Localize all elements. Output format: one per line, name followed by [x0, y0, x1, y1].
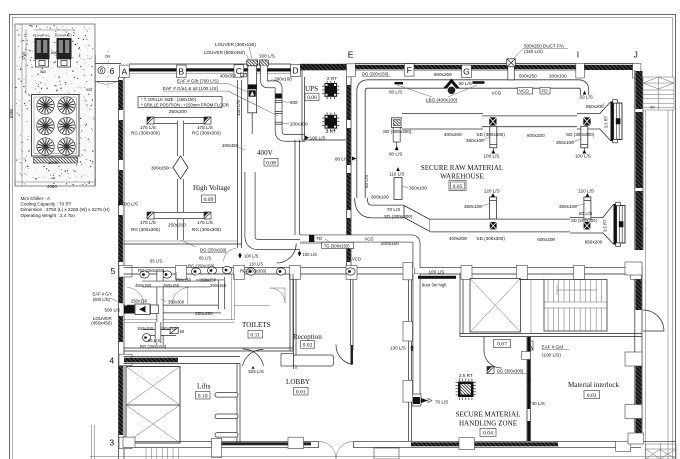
chiller fans — [37, 97, 54, 114]
svg-text:* GRILLE POSITION : +150mm F: * GRILLE POSITION : +150mm FROM FLOOR — [141, 102, 229, 107]
bottom wall — [124, 440, 677, 442]
svg-text:door 3m high: door 3m high — [422, 283, 447, 288]
svg-text:150x150: 150x150 — [200, 278, 217, 283]
stair block lift — [470, 279, 521, 333]
svg-text:0.04: 0.04 — [483, 431, 493, 437]
svg-text:80 L/S: 80 L/S — [389, 151, 402, 156]
SD diffuser head left — [392, 118, 403, 128]
svg-text:250x200: 250x200 — [169, 109, 187, 114]
svg-text:2 RT: 2 RT — [327, 76, 337, 81]
east wall — [634, 70, 636, 250]
svg-text:RG (300x300): RG (300x300) — [240, 269, 267, 274]
stair south wall — [460, 333, 642, 335]
louver boxes on wall — [247, 60, 258, 66]
svg-text:3.5 RT: 3.5 RT — [603, 219, 608, 232]
600x200 duct — [402, 113, 483, 129]
svg-text:175 L/S: 175 L/S — [197, 220, 213, 225]
yard inner line — [21, 24, 23, 186]
reception desk — [281, 354, 294, 366]
svg-text:EAF # G/a1 & a2 (100 L/S): EAF # G/a1 & a2 (100 L/S) — [163, 86, 218, 91]
duct F/A drop at I — [507, 59, 516, 67]
svg-text:PCHWP-A/1: PCHWP-A/1 — [33, 34, 50, 38]
svg-text:110 L/S: 110 L/S — [389, 172, 405, 177]
note box — [138, 97, 222, 108]
svg-text:80 L/S: 80 L/S — [579, 211, 592, 216]
top wall I-J — [584, 63, 633, 65]
door arc at 6 — [97, 82, 116, 84]
svg-text:LOUVER (600x450): LOUVER (600x450) — [204, 50, 245, 55]
svg-text:SD (300x300): SD (300x300) — [566, 132, 595, 137]
lower duct — [361, 198, 404, 212]
svg-text:4: 4 — [109, 356, 114, 366]
corridor duct — [300, 239, 417, 269]
svg-text:600: 600 — [290, 100, 298, 105]
handling west wall — [408, 280, 410, 442]
svg-text:FD: FD — [542, 89, 549, 94]
svg-text:B: B — [178, 66, 184, 76]
chiller box — [32, 95, 80, 157]
grid bubble A — [120, 65, 130, 77]
svg-text:I: I — [577, 50, 579, 60]
svg-text:DG (300x300): DG (300x300) — [497, 369, 524, 374]
svg-text:250x150: 250x150 — [163, 283, 180, 288]
svg-text:(100 L/S): (100 L/S) — [542, 353, 561, 358]
svg-text:FD: FD — [317, 236, 323, 241]
2 RT unit — [322, 113, 339, 134]
SD diffusers on duct — [489, 117, 496, 125]
riser duct to louver — [413, 274, 421, 397]
svg-text:100 L/S: 100 L/S — [244, 254, 259, 259]
svg-text:5: 5 — [111, 266, 116, 276]
lifts east wall — [236, 364, 238, 444]
svg-text:2 RT: 2 RT — [326, 129, 336, 134]
svg-text:900: 900 — [40, 70, 46, 74]
grid bubble C — [234, 65, 244, 77]
svg-text:Reception: Reception — [293, 333, 322, 341]
lower toilet cluster — [143, 329, 176, 335]
svg-text:EAF # G/b (700 L/S): EAF # G/b (700 L/S) — [177, 79, 219, 84]
grid bubble F — [404, 64, 414, 76]
top wall E-I — [355, 63, 576, 65]
svg-text:250x200: 250x200 — [168, 223, 186, 228]
svg-text:8390: 8390 — [9, 108, 14, 118]
HV south wall — [124, 243, 242, 245]
door bottom center — [318, 440, 354, 448]
svg-text:0.01: 0.01 — [296, 389, 306, 395]
svg-text:TG (300x150): TG (300x150) — [324, 243, 350, 248]
corridor wall — [124, 266, 642, 268]
svg-text:400x200: 400x200 — [449, 236, 467, 241]
svg-text:High Voltage: High Voltage — [193, 184, 230, 192]
lift doors — [215, 393, 238, 398]
stair west wall — [459, 274, 461, 337]
svg-text:175 L/S: 175 L/S — [197, 125, 213, 130]
svg-text:SECURE MATERIAL: SECURE MATERIAL — [456, 411, 521, 419]
svg-text:3745: 3745 — [22, 52, 26, 60]
grid bubble B — [177, 65, 187, 77]
svg-text:40 L/S: 40 L/S — [532, 401, 545, 406]
svg-text:SD (300x300): SD (300x300) — [477, 132, 506, 137]
svg-text:0.02: 0.02 — [303, 343, 313, 349]
ceiling fans toilets — [140, 271, 149, 278]
svg-text:2.5 RT: 2.5 RT — [459, 373, 473, 378]
svg-text:A: A — [122, 66, 128, 76]
svg-text:PCHWP-A/2: PCHWP-A/2 — [55, 34, 72, 38]
toilets partition vert — [231, 274, 233, 320]
svg-text:Lifts: Lifts — [197, 383, 211, 391]
svg-text:(440 L/S): (440 L/S) — [524, 49, 543, 54]
grid bubble 6 — [98, 66, 115, 76]
pump PCHWP-A/1 — [35, 38, 50, 67]
svg-text:600x200: 600x200 — [527, 133, 545, 138]
svg-text:500x250: 500x250 — [519, 74, 537, 79]
svg-text:SD (300x300): SD (300x300) — [477, 236, 506, 241]
110 L/S drop — [394, 178, 402, 200]
grid bubble D — [291, 64, 301, 76]
toilet doors — [127, 288, 144, 305]
svg-text:65 L/S: 65 L/S — [148, 338, 160, 343]
svg-text:150x150: 150x150 — [137, 326, 154, 331]
svg-text:Cooling Capacity : 70 RT: Cooling Capacity : 70 RT — [21, 202, 72, 207]
svg-text:130 L/S: 130 L/S — [390, 346, 406, 351]
svg-text:RG (150x150): RG (150x150) — [138, 268, 165, 273]
toilets partition horiz — [124, 319, 235, 321]
warehouse west wall — [346, 77, 348, 267]
dim lines — [15, 181, 95, 183]
west wall — [118, 77, 120, 459]
svg-text:(450x450): (450x450) — [91, 321, 112, 326]
lbg grilles — [395, 82, 404, 84]
svg-text:50 L/S: 50 L/S — [580, 95, 593, 100]
svg-text:110 L/S: 110 L/S — [249, 262, 263, 267]
toilets east wall — [289, 274, 291, 351]
svg-text:50: 50 — [180, 329, 185, 334]
svg-text:250x250: 250x250 — [195, 311, 213, 316]
svg-text:400x350: 400x350 — [222, 143, 239, 148]
svg-text:400x350: 400x350 — [220, 74, 237, 79]
svg-text:600x200: 600x200 — [537, 237, 555, 242]
svg-text:(500 L/S): (500 L/S) — [93, 297, 111, 302]
svg-text:100 L/S: 100 L/S — [259, 54, 275, 59]
svg-text:850x200: 850x200 — [585, 240, 603, 245]
400x350 riser duct — [250, 172, 300, 245]
svg-text:900: 900 — [86, 88, 92, 92]
svg-text:100 L/S: 100 L/S — [303, 252, 318, 257]
400V/UPS divider — [294, 140, 296, 235]
svg-text:WAREHOUSE: WAREHOUSE — [440, 173, 484, 181]
grid bubble G — [462, 65, 472, 77]
svg-text:2295: 2295 — [49, 160, 59, 165]
80 L/S under left SD — [393, 127, 400, 142]
svg-text:RG (300x300): RG (300x300) — [131, 131, 160, 136]
grid letter J — [633, 50, 641, 79]
svg-text:Operating Weight : 2.4 Ton: Operating Weight : 2.4 Ton — [21, 213, 76, 218]
svg-text:600: 600 — [51, 50, 58, 55]
top wall A-D — [129, 63, 291, 65]
interlock west wall — [526, 337, 528, 442]
2 RT unit — [322, 76, 339, 99]
walkway lines — [95, 63, 121, 65]
svg-text:0.09: 0.09 — [204, 197, 214, 203]
svg-text:200x100: 200x100 — [274, 76, 292, 81]
svg-text:3: 3 — [109, 437, 114, 447]
svg-text:DG (250x150): DG (250x150) — [200, 248, 227, 253]
svg-text:3.5 RT: 3.5 RT — [604, 115, 609, 128]
UPS south wall — [302, 139, 346, 141]
svg-text:RG (300x300): RG (300x300) — [192, 227, 221, 232]
lift shaft — [126, 367, 180, 444]
transition diamond — [173, 156, 188, 179]
TG boxed label — [322, 239, 354, 249]
svg-text:Dimension : 3750 (L) x 2260 (W: Dimension : 3750 (L) x 2260 (W) x 2270 (… — [21, 207, 111, 212]
EAF G/c fan unit — [124, 306, 135, 314]
svg-text:70 L/S: 70 L/S — [435, 400, 448, 405]
svg-text:VCD: VCD — [352, 257, 361, 262]
svg-text:0.06: 0.06 — [307, 95, 317, 101]
FD damper diamond — [443, 79, 460, 89]
svg-text:500x250: 500x250 — [434, 72, 452, 77]
svg-text:150x150: 150x150 — [175, 278, 192, 283]
svg-text:250x150: 250x150 — [210, 283, 227, 288]
svg-text:0.11: 0.11 — [250, 332, 260, 338]
EAF duct run A — [248, 66, 257, 113]
svg-text:TOILETS: TOILETS — [242, 321, 271, 329]
svg-text:100 L/S: 100 L/S — [484, 153, 500, 158]
svg-text:Mini Chiller - A: Mini Chiller - A — [21, 196, 52, 201]
lobby entry double door — [243, 349, 264, 366]
svg-text:LOUVER (300x150): LOUVER (300x150) — [215, 42, 256, 47]
svg-text:120 L/S: 120 L/S — [578, 189, 594, 194]
toilet exhaust main — [127, 305, 221, 313]
svg-text:J: J — [634, 50, 638, 60]
top right stair — [643, 77, 674, 110]
pump PCHWP-A/2 — [57, 38, 72, 67]
svg-text:RG (150x150): RG (150x150) — [140, 344, 167, 349]
svg-text:450x150: 450x150 — [135, 283, 152, 288]
svg-text:RG (300x300): RG (300x300) — [192, 131, 221, 136]
svg-text:SD (300x300): SD (300x300) — [383, 129, 412, 134]
svg-text:175 L/S: 175 L/S — [140, 220, 156, 225]
svg-text:200x100: 200x100 — [549, 74, 567, 79]
svg-text:HANDLING ZONE: HANDLING ZONE — [459, 420, 517, 428]
grille sym right of C — [241, 73, 247, 77]
svg-text:4060: 4060 — [47, 184, 57, 189]
svg-text:150x150: 150x150 — [160, 326, 177, 331]
svg-text:500 L/S: 500 L/S — [122, 202, 138, 207]
svg-text:6: 6 — [110, 66, 115, 76]
svg-text:250x150: 250x150 — [131, 299, 148, 304]
EAF duct run B — [264, 66, 305, 138]
svg-text:DN: DN — [105, 55, 110, 59]
svg-text:DG (200x150): DG (200x150) — [362, 72, 389, 77]
svg-text:E: E — [348, 50, 354, 60]
chiller hatched strip — [34, 158, 78, 164]
svg-text:0.08: 0.08 — [266, 160, 276, 166]
top wall D-E — [300, 64, 347, 71]
svg-text:850x200: 850x200 — [586, 104, 604, 109]
svg-text:EAF # G/c: EAF # G/c — [93, 292, 112, 297]
svg-text:VCD: VCD — [519, 89, 529, 94]
svg-text:Material interlock: Material interlock — [568, 381, 619, 389]
svg-text:SD (300x300): SD (300x300) — [384, 214, 413, 219]
svg-text:80 L/S: 80 L/S — [335, 156, 348, 161]
door arc east wall — [643, 310, 664, 331]
svg-text:0.07: 0.07 — [497, 342, 507, 348]
svg-text:500 L/S: 500 L/S — [105, 307, 121, 312]
svg-text:325 L/S: 325 L/S — [248, 369, 264, 374]
svg-text:EAF # G/d: EAF # G/d — [542, 345, 564, 350]
DG 300x300 — [487, 367, 494, 374]
svg-text:350x100: 350x100 — [409, 186, 427, 191]
fan symbol — [249, 90, 256, 96]
svg-text:120 L/S: 120 L/S — [484, 189, 500, 194]
svg-text:65 L/S: 65 L/S — [150, 259, 162, 264]
louver bottom — [412, 394, 432, 406]
svg-text:LOBBY: LOBBY — [286, 378, 310, 386]
svg-text:200x150: 200x150 — [381, 241, 399, 246]
svg-text:LBG (400x100): LBG (400x100) — [426, 98, 458, 103]
pump yard stippled area — [15, 24, 95, 186]
svg-text:200x100: 200x100 — [290, 121, 308, 126]
svg-text:UPS: UPS — [305, 85, 318, 93]
lifts north wall — [124, 356, 241, 358]
east wall lower (stairs+interlock) — [634, 266, 636, 442]
80 L/S wall grille left — [352, 157, 357, 161]
svg-text:0.05: 0.05 — [453, 184, 463, 190]
HV east wall — [237, 80, 239, 248]
AC unit 3.5RT upper — [600, 102, 611, 141]
risers above lower duct — [490, 197, 497, 219]
svg-text:D: D — [292, 66, 298, 76]
svg-text:175 L/S: 175 L/S — [140, 125, 156, 130]
outer east margin lines — [645, 90, 647, 459]
svg-text:350x300: 350x300 — [168, 300, 185, 305]
svg-text:50 L/S: 50 L/S — [389, 90, 402, 95]
reception walls — [293, 280, 295, 369]
svg-text:C: C — [236, 66, 242, 76]
svg-text:SD (300x300): SD (300x300) — [571, 218, 597, 223]
grid letter E — [347, 50, 356, 77]
HV duct top T — [151, 117, 210, 124]
reception door arc — [336, 345, 352, 365]
svg-text:0.10: 0.10 — [198, 393, 208, 399]
svg-text:100 L/S: 100 L/S — [236, 100, 241, 116]
svg-text:50 L/S: 50 L/S — [459, 81, 472, 86]
right margin column boxes — [625, 262, 642, 275]
svg-text:350x100: 350x100 — [464, 204, 482, 209]
svg-text:0.03: 0.03 — [587, 393, 597, 399]
br ramp — [646, 443, 677, 459]
2.5 RT unit — [456, 379, 477, 401]
svg-text:350x100: 350x100 — [559, 204, 577, 209]
svg-text:RG (150x150): RG (150x150) — [188, 264, 215, 269]
500x250 main duct — [361, 84, 585, 205]
svg-text:500x250 DUCT F/A: 500x250 DUCT F/A — [524, 44, 565, 49]
svg-text:400x200: 400x200 — [444, 132, 462, 137]
grid letter I — [576, 50, 585, 79]
DG below HV — [181, 240, 197, 247]
toilets south wall — [124, 347, 294, 349]
svg-text:300x100: 300x100 — [371, 195, 389, 200]
svg-text:RG (300x300): RG (300x300) — [131, 227, 160, 232]
svg-text:VCD: VCD — [365, 236, 374, 241]
svg-text:70 L/S: 70 L/S — [387, 207, 400, 212]
svg-text:F: F — [407, 65, 412, 75]
50 L/S at I drop — [583, 91, 587, 95]
svg-text:50 L/S: 50 L/S — [364, 175, 369, 188]
AC unit 3.5RT lower — [603, 204, 614, 244]
svg-text:400V: 400V — [257, 149, 274, 157]
svg-text:VCD: VCD — [492, 91, 502, 96]
door corridor arc — [277, 244, 297, 264]
bottom-left stair — [146, 448, 178, 459]
svg-text:100 L/S: 100 L/S — [575, 153, 591, 158]
svg-text:100 L/S: 100 L/S — [429, 270, 445, 275]
svg-text:G: G — [463, 66, 470, 76]
svg-text:65 L/S: 65 L/S — [199, 256, 211, 261]
walkway south line x91 — [91, 425, 93, 459]
SD on lower duct — [490, 222, 497, 229]
stairs mid-right — [544, 280, 607, 332]
drops below 600x200 — [490, 126, 497, 148]
room 0.07 — [494, 340, 511, 348]
svg-text:SECURE RAW MATERIAL: SECURE RAW MATERIAL — [421, 164, 503, 172]
svg-text:DN: DN — [650, 106, 655, 110]
